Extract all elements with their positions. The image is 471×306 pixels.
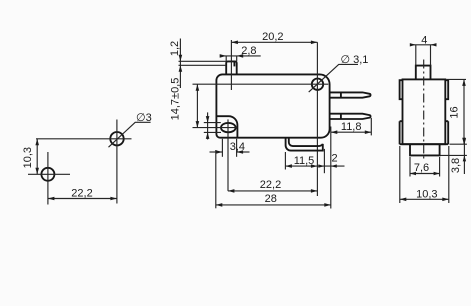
pin 2 crimp tick xyxy=(340,114,342,119)
dimension 2,8 extensions xyxy=(225,56,227,62)
plunger inner hidden mark xyxy=(233,61,235,67)
svg-text:28: 28 xyxy=(265,193,277,205)
hole A vertical center line xyxy=(116,120,118,204)
svg-text:3,8: 3,8 xyxy=(450,158,462,173)
switch body outline xyxy=(216,74,329,137)
svg-text:16: 16 xyxy=(449,106,461,118)
svg-text:10,3: 10,3 xyxy=(22,147,34,168)
bottom terminal outer bend xyxy=(286,138,323,151)
leader line for diameter 3 xyxy=(109,122,151,147)
bottom boss xyxy=(410,144,440,155)
svg-text:∅ 3,1: ∅ 3,1 xyxy=(341,54,369,66)
svg-text:14,7±0,5: 14,7±0,5 xyxy=(170,78,182,121)
dimension 2 extension xyxy=(323,149,325,173)
dimension 7,6 extensions xyxy=(409,157,411,177)
svg-text:2: 2 xyxy=(331,152,337,164)
bottom terminal inner bend xyxy=(289,138,323,146)
svg-text:22,2: 22,2 xyxy=(260,179,281,191)
mounting hole A (upper right) xyxy=(110,132,123,145)
terminal pin 1 xyxy=(330,92,371,97)
leader line for dia 3,1 xyxy=(309,64,358,92)
ear hole vertical center line (also 22,2 extension) xyxy=(227,119,229,190)
dimension 22,2 line (side view) xyxy=(228,190,318,192)
dimension 11,8 line xyxy=(331,131,372,133)
hole B horizontal center line xyxy=(28,173,70,175)
hole B vertical center line xyxy=(47,152,49,205)
dimension 1,2 line xyxy=(179,39,181,89)
left side tabs xyxy=(400,80,403,144)
ear hole height dimension line (unlabelled) xyxy=(207,112,209,139)
svg-text:11,8: 11,8 xyxy=(341,121,362,133)
mounting ear top edge xyxy=(216,116,237,138)
pin 1 crimp tick xyxy=(340,92,342,97)
dimension 1,2 extensions xyxy=(179,60,227,62)
dimension 3,4 extensions xyxy=(221,139,223,157)
plunger (button) xyxy=(226,61,237,74)
dimension 14,7±0,5 line xyxy=(196,84,198,127)
right side tabs xyxy=(445,80,448,144)
dimension 11,5 extension xyxy=(284,152,286,170)
svg-text:22,2: 22,2 xyxy=(71,188,92,200)
long vertical center line through hole 3,1 xyxy=(316,42,318,196)
front body outline xyxy=(403,79,446,144)
svg-text:10,3: 10,3 xyxy=(416,189,437,201)
ear hole height extension ticks xyxy=(204,122,221,124)
dimension 16 extensions xyxy=(447,78,467,80)
dimension 28 extensions xyxy=(215,150,217,208)
dimension 20,2 line xyxy=(231,41,317,43)
mounting hole B (lower left) xyxy=(41,168,54,181)
svg-text:3,4: 3,4 xyxy=(230,141,245,153)
hole 3,1 horizontal center line (also 14,7 extension) xyxy=(193,83,329,85)
svg-text:∅3: ∅3 xyxy=(136,112,152,124)
svg-text:1,2: 1,2 xyxy=(169,41,181,56)
dimension 10,3 line (front view) xyxy=(400,198,449,200)
svg-text:4: 4 xyxy=(421,34,427,46)
hole A horizontal center line xyxy=(36,138,132,140)
svg-text:20,2: 20,2 xyxy=(262,31,283,43)
dimension 16 line xyxy=(463,79,465,144)
dimension 3,4 line xyxy=(210,151,223,153)
dimension 2,8 line xyxy=(220,55,261,57)
dimension 4 extensions xyxy=(415,45,417,66)
dimension 2 line xyxy=(317,165,344,167)
dimension 10,3 extensions xyxy=(399,146,401,203)
dimension 3,8 line xyxy=(463,138,465,175)
svg-text:7,6: 7,6 xyxy=(414,162,429,174)
dimension 3,8 extensions xyxy=(450,143,467,145)
bottom edge full width xyxy=(400,143,449,145)
terminal pin 2 xyxy=(330,114,371,119)
dimension 11,5 line xyxy=(285,165,317,167)
dimension 10,3 line xyxy=(36,139,38,175)
dimension 7,6 line xyxy=(410,173,440,175)
svg-text:11,5: 11,5 xyxy=(294,155,315,167)
dimension 20,2 extension (plunger center line) xyxy=(230,40,232,90)
ear hole (ellipse) xyxy=(221,123,236,132)
hole dia 3,1 xyxy=(312,79,323,90)
dimension 11,8 extension xyxy=(370,118,372,135)
svg-text:2,8: 2,8 xyxy=(241,45,256,57)
front center line (dash-dot) xyxy=(423,60,425,162)
dimension 4 line xyxy=(411,44,435,46)
dimension 28 line xyxy=(216,204,331,206)
ear hole horizontal center line xyxy=(193,127,238,129)
dimension 22,2 line xyxy=(48,198,117,200)
front plunger xyxy=(416,66,431,80)
